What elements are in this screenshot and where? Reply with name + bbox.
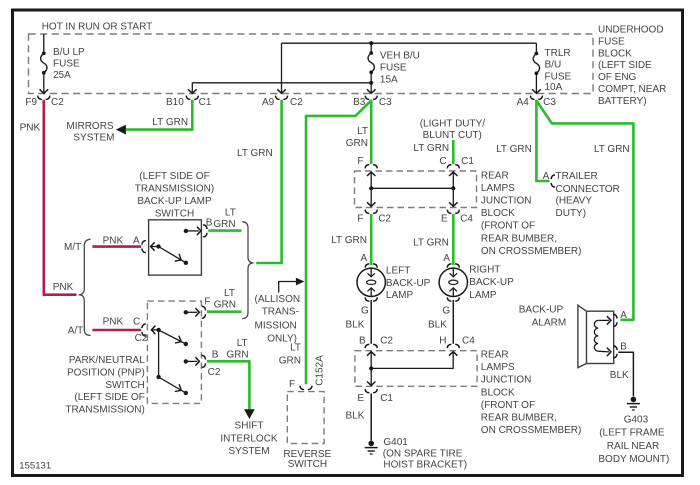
svg-text:GRN: GRN — [214, 299, 236, 310]
svg-text:PNK: PNK — [103, 317, 124, 328]
svg-text:FUSE: FUSE — [380, 62, 407, 73]
svg-text:BLOCK: BLOCK — [481, 208, 515, 219]
svg-text:B/U: B/U — [545, 60, 562, 71]
svg-text:TRLR: TRLR — [545, 48, 571, 59]
svg-text:LT: LT — [290, 343, 301, 354]
svg-text:(LIGHT DUTY/: (LIGHT DUTY/ — [420, 118, 486, 129]
svg-text:ALARM: ALARM — [532, 317, 566, 328]
svg-text:BATTERY): BATTERY) — [598, 96, 647, 107]
svg-text:A: A — [543, 171, 550, 182]
svg-text:G401: G401 — [383, 437, 408, 448]
svg-text:LEFT: LEFT — [386, 265, 410, 276]
svg-text:(HEAVY: (HEAVY — [556, 196, 593, 207]
svg-text:H: H — [439, 336, 446, 347]
svg-text:LT GRN: LT GRN — [413, 143, 449, 154]
svg-text:(LEFT SIDE: (LEFT SIDE — [598, 60, 652, 71]
svg-text:JUNCTION: JUNCTION — [481, 196, 532, 207]
svg-text:(FRONT OF: (FRONT OF — [481, 221, 535, 232]
svg-text:F: F — [357, 214, 363, 225]
svg-text:LAMP: LAMP — [386, 290, 414, 301]
svg-text:PARK/NEUTRAL: PARK/NEUTRAL — [69, 355, 145, 366]
svg-text:G403: G403 — [624, 415, 649, 426]
svg-text:BLK: BLK — [346, 319, 365, 330]
svg-text:C1: C1 — [461, 156, 474, 167]
svg-text:HOT IN RUN OR START: HOT IN RUN OR START — [42, 21, 153, 32]
svg-text:A/T: A/T — [68, 326, 84, 337]
svg-text:LT GRN: LT GRN — [496, 144, 532, 155]
svg-text:GRN: GRN — [279, 356, 301, 367]
svg-text:MIRRORS: MIRRORS — [66, 121, 114, 132]
svg-text:POSITION (PNP): POSITION (PNP) — [67, 368, 145, 379]
svg-text:A9: A9 — [262, 97, 275, 108]
svg-text:F: F — [289, 379, 295, 390]
svg-text:BACK-UP LAMP: BACK-UP LAMP — [137, 196, 212, 207]
svg-text:FUSE: FUSE — [53, 59, 80, 70]
svg-text:UNDERHOOD: UNDERHOOD — [598, 25, 664, 36]
svg-text:A: A — [443, 253, 450, 264]
svg-text:LT GRN: LT GRN — [237, 148, 273, 159]
svg-text:F: F — [204, 296, 210, 307]
svg-text:REAR BUMBER,: REAR BUMBER, — [481, 233, 557, 244]
svg-text:TRANSMISSION): TRANSMISSION) — [65, 404, 144, 415]
svg-text:GRN: GRN — [213, 219, 235, 230]
svg-text:ON CROSSMEMBER): ON CROSSMEMBER) — [481, 425, 582, 436]
svg-text:C: C — [439, 156, 446, 167]
svg-text:C2: C2 — [135, 333, 148, 344]
svg-text:C3: C3 — [543, 97, 556, 108]
svg-text:BLUNT CUT): BLUNT CUT) — [423, 130, 482, 141]
svg-text:LT GRN: LT GRN — [594, 144, 630, 155]
svg-text:SWITCH: SWITCH — [155, 208, 194, 219]
svg-text:RIGHT: RIGHT — [469, 265, 500, 276]
svg-text:C: C — [133, 317, 140, 328]
svg-text:B: B — [212, 349, 219, 360]
svg-text:C152A: C152A — [315, 355, 326, 386]
svg-text:REAR: REAR — [481, 350, 509, 361]
svg-text:C2: C2 — [51, 97, 64, 108]
svg-text:SHIFT: SHIFT — [235, 420, 264, 431]
svg-text:B: B — [206, 217, 213, 228]
svg-text:F9: F9 — [25, 97, 37, 108]
svg-text:G: G — [361, 305, 369, 316]
svg-text:(ALLISON: (ALLISON — [255, 294, 301, 305]
svg-text:COMPT, NEAR: COMPT, NEAR — [598, 84, 666, 95]
svg-text:M/T: M/T — [64, 242, 81, 253]
svg-text:LT: LT — [237, 338, 248, 349]
svg-text:JUNCTION: JUNCTION — [481, 375, 532, 386]
svg-text:BODY MOUNT): BODY MOUNT) — [598, 454, 669, 465]
svg-text:BACK-UP: BACK-UP — [386, 278, 431, 289]
svg-text:B: B — [359, 336, 366, 347]
svg-text:(LEFT SIDE OF: (LEFT SIDE OF — [74, 392, 144, 403]
svg-text:LAMPS: LAMPS — [481, 362, 515, 373]
svg-text:A: A — [361, 253, 368, 264]
svg-text:DUTY): DUTY) — [556, 208, 587, 219]
svg-text:PNK: PNK — [53, 282, 74, 293]
svg-text:PNK: PNK — [20, 123, 41, 134]
svg-text:FUSE: FUSE — [598, 36, 625, 47]
svg-text:C2: C2 — [290, 97, 303, 108]
svg-text:C1: C1 — [380, 393, 393, 404]
svg-text:TRANSMISSION): TRANSMISSION) — [135, 184, 214, 195]
svg-text:A: A — [620, 310, 627, 321]
svg-text:LAMP: LAMP — [469, 290, 497, 301]
svg-text:BLK: BLK — [346, 410, 365, 421]
svg-text:TRANS-: TRANS- — [262, 307, 299, 318]
svg-text:C2: C2 — [208, 367, 221, 378]
svg-text:C4: C4 — [462, 336, 475, 347]
svg-text:F: F — [357, 156, 363, 167]
svg-text:A: A — [133, 236, 140, 247]
svg-text:(LEFT SIDE OF: (LEFT SIDE OF — [139, 171, 209, 182]
svg-text:LT: LT — [224, 288, 235, 299]
svg-text:LT GRN: LT GRN — [413, 238, 449, 249]
svg-text:TRAILER: TRAILER — [556, 171, 598, 182]
svg-text:15A: 15A — [380, 75, 398, 86]
svg-text:LT: LT — [225, 208, 236, 219]
svg-text:HOIST BRACKET): HOIST BRACKET) — [383, 460, 467, 471]
svg-text:PNK: PNK — [103, 236, 124, 247]
svg-text:B10: B10 — [166, 97, 184, 108]
svg-text:OF ENG: OF ENG — [598, 72, 637, 83]
svg-text:GRN: GRN — [346, 138, 368, 149]
svg-text:(FRONT OF: (FRONT OF — [481, 400, 535, 411]
svg-text:SWITCH: SWITCH — [288, 459, 327, 470]
svg-text:GRN: GRN — [226, 349, 248, 360]
svg-text:B/U LP: B/U LP — [53, 47, 85, 58]
svg-text:(LEFT FRAME: (LEFT FRAME — [599, 427, 665, 438]
svg-text:SYSTEM: SYSTEM — [228, 446, 269, 457]
svg-text:155131: 155131 — [19, 460, 51, 471]
svg-text:SWITCH: SWITCH — [105, 380, 144, 391]
svg-text:C1: C1 — [199, 97, 212, 108]
svg-text:BLOCK: BLOCK — [598, 48, 632, 59]
svg-text:E: E — [441, 214, 448, 225]
svg-text:BLK: BLK — [428, 319, 447, 330]
svg-text:BLK: BLK — [610, 370, 629, 381]
svg-text:SYSTEM: SYSTEM — [73, 132, 114, 143]
svg-text:CONNECTOR: CONNECTOR — [556, 184, 620, 195]
svg-text:LT GRN: LT GRN — [331, 235, 367, 246]
svg-text:INTERLOCK: INTERLOCK — [220, 433, 278, 444]
svg-text:REAR BUMBER,: REAR BUMBER, — [481, 413, 557, 424]
svg-text:25A: 25A — [53, 70, 71, 81]
svg-text:VEH B/U: VEH B/U — [380, 51, 420, 62]
svg-text:C3: C3 — [379, 97, 392, 108]
svg-text:ON CROSSMEMBER): ON CROSSMEMBER) — [481, 246, 582, 257]
svg-text:B: B — [620, 342, 627, 353]
svg-text:MISSION: MISSION — [255, 321, 297, 332]
svg-text:G: G — [442, 305, 450, 316]
svg-text:BACK-UP: BACK-UP — [469, 277, 514, 288]
svg-text:LT: LT — [357, 126, 368, 137]
svg-text:LAMPS: LAMPS — [481, 183, 515, 194]
svg-text:(ON SPARE TIRE: (ON SPARE TIRE — [383, 449, 463, 460]
svg-text:REAR: REAR — [481, 170, 509, 181]
svg-text:C2: C2 — [380, 336, 393, 347]
svg-text:BACK-UP: BACK-UP — [519, 305, 564, 316]
svg-text:E: E — [357, 393, 364, 404]
svg-text:BLOCK: BLOCK — [481, 387, 515, 398]
svg-text:C2: C2 — [378, 214, 391, 225]
svg-text:LT GRN: LT GRN — [152, 117, 188, 128]
svg-text:A4: A4 — [517, 97, 530, 108]
svg-text:C4: C4 — [460, 214, 473, 225]
svg-text:RAIL NEAR: RAIL NEAR — [607, 441, 659, 452]
svg-text:10A: 10A — [545, 82, 563, 93]
